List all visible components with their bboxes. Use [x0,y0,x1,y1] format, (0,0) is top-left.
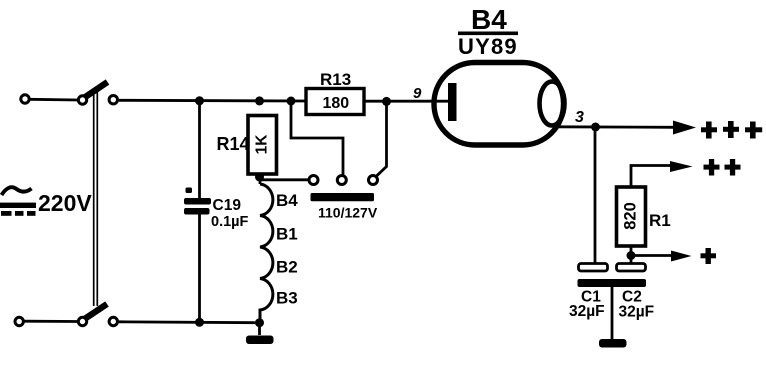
switch S1 bottom output contact [109,317,117,325]
svg-text:B4: B4 [471,4,507,35]
wire [24,320,78,323]
wire C19 to bottom rail [198,215,201,323]
node junction C19 bottom [195,318,204,327]
selector contact left [309,176,318,185]
capacitor C19 top plate [184,198,211,205]
label +++ [701,121,762,139]
switch S1 top output contact [109,96,117,104]
wire top main [119,99,305,102]
selector bar [311,193,375,201]
capacitor C2 top plate [617,264,646,272]
wire R13 to tube [364,100,448,103]
switch S1 top blade [85,82,108,98]
inductor winding [260,184,273,322]
node junction coil bottom [255,318,264,327]
svg-text:R13: R13 [320,70,351,89]
wire [30,98,79,101]
wire caps to ground [611,287,614,339]
svg-text:110/127V: 110/127V [318,205,378,221]
svg-text:3: 3 [575,109,584,126]
shared bottom plate C1 C2 [578,279,647,287]
wire R1 bottom to C2 [630,246,633,263]
ground right [599,339,627,348]
svg-text:B1: B1 [276,225,298,244]
wire pin3 down to C1 [594,127,597,263]
node junction R14 branch top [255,96,264,105]
node junction selector mid branch [287,97,296,106]
node junction + branch [627,251,636,260]
capacitor C19 bottom plate [184,208,210,215]
capacitor C1 top plate [579,264,608,272]
wire C19 branch down [198,101,201,198]
wire + branch [631,254,673,257]
svg-text:820: 820 [622,202,640,230]
svg-text:180: 180 [323,95,350,112]
wire bottom rail [119,320,260,324]
resistor R14 [248,116,277,175]
svg-text:32µF: 32µF [619,304,655,321]
svg-text:R14: R14 [217,134,250,154]
resistor R13 [306,89,364,115]
title underline [458,32,518,36]
svg-text:220V: 220V [38,190,92,216]
svg-text:9: 9 [413,85,422,102]
selector contact middle [337,176,346,185]
svg-text:B4: B4 [276,191,298,210]
arrow output + [671,251,692,262]
ground left [246,336,274,345]
resistor R1 [617,187,646,246]
label + [701,248,717,264]
svg-text:C19: C19 [213,197,242,214]
wire coil ground stub [258,323,261,335]
polarity dot C19 [186,188,193,194]
arrow output ++ [670,161,693,172]
label ++ [704,159,741,176]
switch S1 top pole contact [78,96,86,104]
svg-text:0.1µF: 0.1µF [211,214,249,230]
tube anode ellipse [540,82,565,126]
node junction pin3 [591,123,600,132]
svg-text:1K: 1K [254,134,271,155]
node junction selector right branch [382,97,391,106]
svg-text:B3: B3 [276,289,298,308]
svg-text:B2: B2 [276,258,298,277]
node junction C19 branch top [195,96,204,105]
node junction R14 bottom tap [255,173,264,182]
tube cathode bar [448,83,457,121]
svg-text:UY89: UY89 [458,34,518,59]
wire R1 top to ++ arrow [631,166,672,188]
switch S1 bottom blade [85,304,108,319]
arrow output +++ [673,121,696,135]
svg-text:R1: R1 [649,211,671,230]
terminal top-left mains pin [21,95,29,103]
svg-text:32µF: 32µF [569,303,605,320]
wire tap to selector left [260,178,309,181]
selector contact right [369,176,378,185]
switch linkage double line [94,88,98,306]
tube B4 envelope [434,63,564,146]
AC source symbol [0,187,36,216]
switch S1 bottom pole contact [78,317,86,325]
wire R14 to coil [259,174,262,185]
wire R13 left to middle contact [291,101,343,175]
wire pin3 output [557,125,676,128]
wire R13 right to right contact [376,101,386,176]
terminal bottom-left mains pin [15,317,23,325]
